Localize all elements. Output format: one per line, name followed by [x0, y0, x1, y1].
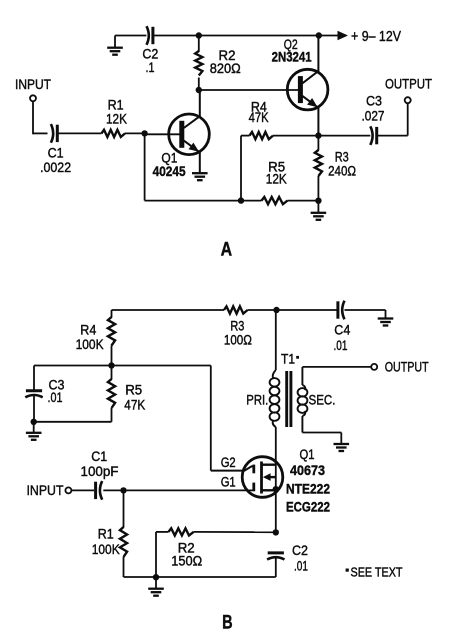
- ground under R3: [311, 201, 327, 220]
- label R4 value 47K: [249, 110, 269, 125]
- wire C1 to R1: [57, 132, 101, 134]
- label G2: [221, 455, 236, 470]
- label T1: [281, 352, 299, 367]
- label part 40673: [290, 463, 325, 478]
- capacitor C2: [147, 26, 153, 45]
- resistor R3 (circuit B): [224, 306, 248, 313]
- label C4 value .01: [334, 338, 348, 353]
- label Q1 part number 40245: [153, 164, 186, 179]
- svg-text:R3: R3: [230, 319, 244, 334]
- label R4: [251, 99, 267, 114]
- svg-text:.01: .01: [48, 390, 63, 405]
- svg-text:ECG222: ECG222: [286, 500, 330, 515]
- svg-text:B: B: [222, 612, 233, 634]
- label C1 value 100pF: [81, 464, 119, 479]
- svg-text:.01: .01: [294, 558, 308, 573]
- label R4 (B): [80, 323, 96, 338]
- svg-text:.0022: .0022: [40, 160, 71, 175]
- mosfet drain bar: [262, 464, 276, 466]
- wire to C3 (B) down: [33, 366, 35, 391]
- svg-text:C1: C1: [91, 449, 107, 464]
- node Q2 collector rail: [316, 32, 322, 38]
- label R1: [108, 98, 124, 113]
- label supply voltage: [351, 28, 401, 45]
- svg-text:47K: 47K: [249, 110, 269, 125]
- wire bottom rail A left: [145, 200, 241, 202]
- wire emitter node to C3: [318, 135, 370, 137]
- label Q2: [284, 37, 298, 52]
- svg-text:NTE222: NTE222: [286, 482, 330, 497]
- label Q2 part number 2N3241: [272, 49, 312, 64]
- capacitor C3 (circuit A): [370, 126, 376, 145]
- resistor R3 (circuit A): [315, 136, 322, 201]
- node bottom rail / R4 branch: [238, 197, 244, 203]
- Q2 collector lead: [302, 36, 318, 84]
- wire R4 left lead: [241, 135, 250, 137]
- resistor R5 (circuit A): [262, 197, 288, 204]
- mosfet source-substrate node: [273, 486, 279, 492]
- svg-text:100pF: 100pF: [81, 464, 119, 479]
- node Q1 base: [141, 130, 147, 136]
- wire rail to T1 primary: [275, 310, 277, 370]
- svg-text:100K: 100K: [92, 542, 120, 557]
- terminal INPUT B: [65, 487, 71, 493]
- label R5 value 12K: [266, 171, 287, 186]
- label Q1 (B): [300, 447, 315, 462]
- label C4: [334, 322, 350, 337]
- label R5: [268, 160, 285, 175]
- svg-text:.027: .027: [362, 108, 385, 123]
- capacitor C3 (circuit B): [25, 391, 42, 398]
- label INPUT (circuit A): [15, 76, 51, 92]
- label C3 (B): [49, 378, 65, 393]
- label R3 (B): [230, 319, 244, 334]
- svg-text:T1: T1: [281, 352, 295, 367]
- svg-text:Q1: Q1: [300, 447, 315, 462]
- svg-text:R5: R5: [125, 383, 142, 398]
- svg-text:C1: C1: [48, 145, 64, 160]
- svg-text:R1: R1: [108, 98, 124, 113]
- ground secondary: [334, 433, 350, 452]
- terminal OUTPUT B: [371, 364, 377, 370]
- node R4/R5 divider: [108, 362, 114, 368]
- label R5 (B): [125, 383, 142, 398]
- node Q2 emitter junction: [315, 132, 321, 138]
- svg-text:G2: G2: [221, 455, 236, 470]
- label B (figure B): [222, 612, 233, 634]
- wire secondary bottom: [302, 432, 341, 433]
- wire ground node to R5: [34, 421, 112, 423]
- label Q1: [161, 150, 177, 165]
- label R2 value 150ohm: [171, 553, 202, 568]
- label A (figure A): [221, 238, 233, 260]
- label OUTPUT (circuit B): [385, 359, 429, 375]
- note SEE TEXT: [346, 565, 403, 579]
- svg-text:OUTPUT: OUTPUT: [385, 359, 429, 375]
- svg-text:C3: C3: [366, 93, 382, 108]
- resistor R4 (circuit B): [108, 310, 115, 366]
- svg-text:R3: R3: [335, 149, 349, 164]
- Q1 collector lead: [184, 90, 200, 128]
- label R3: [335, 149, 349, 164]
- svg-text:C4: C4: [334, 322, 350, 337]
- node R3 bottom / R5 / ground: [315, 198, 321, 204]
- svg-text:G1: G1: [221, 475, 236, 490]
- capacitor C1 (circuit A): [51, 124, 57, 143]
- wire Q1 base lead: [145, 133, 182, 135]
- svg-text:SEE TEXT: SEE TEXT: [351, 565, 403, 579]
- svg-text:A: A: [221, 238, 233, 260]
- svg-text:100Ω: 100Ω: [224, 332, 252, 347]
- resistor R2: [195, 36, 202, 91]
- svg-text:INPUT: INPUT: [27, 482, 64, 498]
- wire R2 to source node: [194, 531, 276, 533]
- label PRI.: [246, 393, 268, 408]
- node ground rail B: [153, 574, 159, 580]
- label INPUT (circuit B): [27, 482, 64, 498]
- svg-text:100K: 100K: [76, 337, 104, 352]
- svg-text:.1: .1: [146, 60, 155, 75]
- wire C2 to bottom rail: [275, 557, 277, 578]
- label R5 value 47K: [124, 398, 145, 413]
- svg-text:12K: 12K: [106, 112, 127, 127]
- wire rail A main: [153, 35, 338, 37]
- wire R5 left lead: [241, 200, 262, 202]
- label R4 value 100K: [76, 337, 104, 352]
- svg-text:820Ω: 820Ω: [210, 61, 241, 76]
- transformer T1 secondary winding: [298, 367, 308, 433]
- ground under C3 (B): [26, 422, 42, 440]
- wire C3 to output: [377, 103, 408, 136]
- wire R2 left vertical: [155, 532, 157, 577]
- transformer T1 primary winding: [270, 370, 280, 427]
- resistor R4 (circuit A): [250, 132, 274, 139]
- resistor R1 (circuit A): [102, 130, 126, 137]
- node C3 ground junction: [31, 419, 37, 425]
- svg-text:PRI.: PRI.: [246, 393, 268, 408]
- Q1 emitter lead: [184, 141, 200, 174]
- ground under Q1 emitter: [192, 172, 208, 180]
- svg-text:2N3241: 2N3241: [272, 49, 312, 64]
- wire rail A left segment: [115, 35, 146, 37]
- wire divider to G2 vertical: [210, 366, 212, 471]
- svg-text:47K: 47K: [124, 398, 145, 413]
- label R3 value 100ohm: [224, 332, 252, 347]
- svg-text:+ 9– 12V: + 9– 12V: [351, 28, 401, 45]
- transformer T1 core: [287, 371, 291, 427]
- ground right of C4: [378, 310, 394, 326]
- resistor R1 (circuit B): [120, 490, 127, 577]
- wire R5 right lead: [288, 200, 319, 202]
- wire input to C1 (B): [71, 489, 94, 491]
- label C3 value .01 (B): [48, 390, 63, 405]
- Q2 emitter lead: [302, 96, 318, 136]
- label C1: [48, 145, 64, 160]
- wire T1 primary bottom to Q1 drain: [275, 427, 277, 532]
- terminal INPUT A: [30, 95, 36, 101]
- wire R4 branch vertical: [240, 136, 242, 201]
- wire R1 to base node: [125, 132, 145, 134]
- label C1 value .0022: [40, 160, 71, 175]
- capacitor C2 (circuit B): [267, 553, 284, 560]
- wire bottom rail B: [124, 576, 276, 578]
- wire base node down to bottom rail: [144, 133, 146, 200]
- resistor R5 (circuit B): [108, 366, 115, 422]
- capacitor C4: [338, 301, 345, 320]
- transistor Q1 body: [169, 114, 210, 155]
- ground bottom rail B: [148, 577, 164, 596]
- resistor R2 (circuit B): [156, 528, 194, 535]
- mosfet gate1 electrode: [252, 483, 255, 492]
- label R3 value 240ohm: [328, 164, 356, 179]
- svg-text:R1: R1: [98, 527, 114, 542]
- svg-text:12K: 12K: [266, 171, 287, 186]
- svg-text:INPUT: INPUT: [15, 76, 51, 92]
- mosfet substrate arrow: [263, 473, 276, 481]
- svg-text:40245: 40245: [153, 164, 186, 179]
- node C1/R1/G1: [120, 487, 126, 493]
- wire input down: [32, 101, 34, 134]
- svg-text:C2: C2: [292, 543, 308, 558]
- svg-text:SEC.: SEC.: [309, 392, 336, 407]
- wire C4 to ground: [345, 309, 386, 311]
- wire divider rail: [34, 365, 211, 367]
- label R1 value 100K: [92, 542, 120, 557]
- wire G1 lead: [103, 489, 254, 491]
- svg-text:240Ω: 240Ω: [328, 164, 356, 179]
- capacitor C1 (circuit B): [96, 481, 103, 500]
- label C3 value .027: [362, 108, 385, 123]
- label G1: [221, 475, 236, 490]
- ground top-left (circuit A supply rail bypass): [107, 36, 123, 55]
- terminal OUTPUT A: [405, 97, 411, 103]
- node R2 bottom / Q1 collector / Q2 base: [196, 87, 202, 93]
- transistor Q2 body: [287, 69, 328, 110]
- label R1 value 12K: [106, 112, 127, 127]
- wire secondary to output: [302, 366, 371, 368]
- label part NTE222: [286, 482, 330, 497]
- mosfet source bar: [262, 489, 276, 491]
- svg-text:.01: .01: [334, 338, 348, 353]
- label R1 (B): [98, 527, 114, 542]
- svg-text:150Ω: 150Ω: [171, 553, 202, 568]
- wire input to C1: [33, 132, 48, 134]
- label C3: [366, 93, 382, 108]
- mosfet Q1 body (circuit B): [242, 457, 283, 498]
- supply arrow +9-12V: [338, 31, 349, 40]
- wire Q2 base: [199, 89, 299, 91]
- label C2 (B): [292, 543, 308, 558]
- label OUTPUT (circuit A): [385, 75, 432, 91]
- svg-text:40673: 40673: [290, 463, 325, 478]
- node source/R2/C2: [273, 529, 279, 535]
- wire C3 to ground node: [33, 395, 35, 422]
- label C2 value .01: [294, 558, 308, 573]
- node R2 top: [196, 32, 202, 38]
- svg-text:OUTPUT: OUTPUT: [385, 75, 432, 91]
- wire R3 to C4: [248, 309, 337, 311]
- label R2 (B): [178, 540, 195, 555]
- svg-text:R4: R4: [80, 323, 96, 338]
- label R2: [210, 48, 241, 76]
- wire top rail B left: [112, 309, 225, 311]
- label C1 (B): [91, 449, 107, 464]
- wire R4 right lead: [273, 135, 318, 137]
- label C2 value: [142, 47, 158, 75]
- mosfet gate2 electrode: [211, 465, 255, 474]
- node T1 primary top: [273, 307, 279, 313]
- label part ECG222: [286, 500, 330, 515]
- label SEC.: [309, 392, 336, 407]
